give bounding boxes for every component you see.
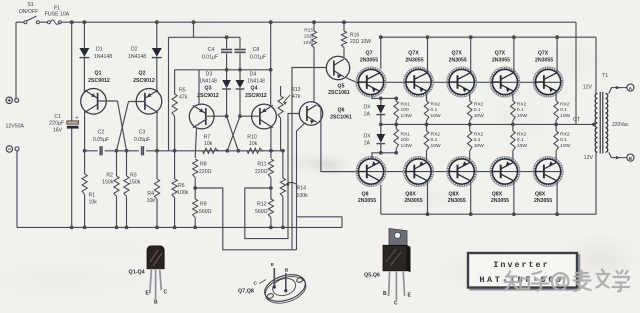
svg-text:12V50A: 12V50A <box>6 124 25 130</box>
svg-text:1/4W: 1/4W <box>401 143 413 149</box>
wire bottom bus to transformer <box>595 153 597 215</box>
wire top collector bus <box>381 36 596 38</box>
diode D1 <box>83 20 87 24</box>
svg-text:220Ω: 220Ω <box>199 169 212 175</box>
svg-text:150k: 150k <box>102 180 114 186</box>
wire Q7X #1 emitter to RX2 <box>426 94 428 101</box>
diode D4 <box>239 70 241 80</box>
resistor RX1 top <box>381 97 396 99</box>
transistor Q5 <box>326 56 349 79</box>
svg-text:B: B <box>383 291 387 297</box>
svg-text:D4: D4 <box>250 72 257 78</box>
svg-text:1N4148: 1N4148 <box>94 54 112 60</box>
svg-text:10W: 10W <box>560 143 570 149</box>
svg-text:Q2: Q2 <box>139 70 146 76</box>
svg-text:R3: R3 <box>130 172 137 178</box>
wire Q8X #2 emitter to RX2 <box>469 153 471 160</box>
wire R11/R12 tap to Q6 base loop <box>245 114 300 239</box>
svg-text:R16: R16 <box>350 32 359 38</box>
wire Q4 base stub <box>240 115 259 117</box>
svg-text:10W: 10W <box>474 143 484 149</box>
svg-text:Q8X: Q8X <box>405 191 416 197</box>
svg-text:C3: C3 <box>139 130 146 136</box>
wire top bus to transformer <box>595 37 597 93</box>
diode DX top <box>379 97 383 101</box>
svg-text:12V: 12V <box>584 155 594 161</box>
svg-text:Q8: Q8 <box>362 191 369 197</box>
svg-text:Q7X: Q7X <box>452 51 463 57</box>
svg-text:10W: 10W <box>517 143 527 149</box>
svg-text:22Ω: 22Ω <box>304 34 313 40</box>
svg-text:RX1: RX1 <box>401 131 411 137</box>
svg-text:1/4W: 1/4W <box>401 113 413 119</box>
svg-text:DX: DX <box>364 134 372 140</box>
resistor R10 <box>247 148 264 153</box>
wire Q8X #4 collector <box>555 212 559 216</box>
svg-text:1N4148: 1N4148 <box>128 54 146 60</box>
wire Q7X #3 emitter to RX2 <box>512 94 514 101</box>
svg-text:R7: R7 <box>204 135 211 141</box>
watermark zhihu <box>505 270 630 292</box>
wire cross-coupling D3 to R10 node <box>226 88 228 116</box>
capacitor C4 <box>226 37 228 48</box>
diode DX bottom <box>380 124 382 134</box>
wire Q8X #3 emitter to RX2 <box>512 153 514 160</box>
svg-text:R15: R15 <box>304 27 313 33</box>
resistor R5 <box>174 70 176 94</box>
wire Q8 emitter <box>372 153 381 159</box>
transformer secondary winding <box>606 94 608 153</box>
wire bottom collector bus <box>381 213 596 215</box>
svg-text:C1: C1 <box>54 114 61 120</box>
svg-text:Q8X: Q8X <box>535 191 546 197</box>
svg-text:100k: 100k <box>297 193 309 199</box>
svg-text:R13: R13 <box>291 87 301 93</box>
diode D3 <box>226 70 228 80</box>
wire Q4 emitter to R11 <box>270 128 272 159</box>
svg-text:RX2: RX2 <box>474 131 484 137</box>
wire Q7X #2 emitter to RX2 <box>469 94 471 101</box>
wire Q8X #4 emitter to RX2 <box>555 153 557 160</box>
package drawing TO-3 Q7 Q8 <box>238 262 309 308</box>
svg-text:2N3055: 2N3055 <box>404 198 422 204</box>
svg-text:2N3055: 2N3055 <box>448 198 466 204</box>
package drawing TO-220 Q5 Q6 <box>364 229 412 307</box>
svg-text:2SC9012: 2SC9012 <box>133 78 155 84</box>
svg-text:0.1: 0.1 <box>517 107 524 113</box>
wire mid line right segment <box>200 150 283 152</box>
wire centre CT bus <box>381 123 576 125</box>
resistor R6 <box>173 149 177 153</box>
transistor Q6 <box>299 102 322 125</box>
wire Q8X #2 collector <box>469 212 473 216</box>
svg-text:0.01µF: 0.01µF <box>250 54 266 60</box>
svg-text:RX2: RX2 <box>517 101 527 107</box>
svg-text:10W: 10W <box>431 143 441 149</box>
wire cross-coupling D4 to R7 node <box>239 88 241 116</box>
svg-text:2N3055: 2N3055 <box>449 57 467 63</box>
svg-text:10W: 10W <box>303 40 313 46</box>
wire Q1 emitter to R1 <box>84 111 86 151</box>
wire Q7X #2 collector <box>469 35 473 39</box>
wire Q8 collector <box>380 185 382 214</box>
svg-text:2N3055: 2N3055 <box>491 198 509 204</box>
svg-text:T1: T1 <box>602 73 608 79</box>
svg-text:Q1-Q4: Q1-Q4 <box>129 269 145 275</box>
svg-text:Q1: Q1 <box>95 70 102 76</box>
capacitor C8 <box>239 37 241 48</box>
svg-text:R1: R1 <box>89 192 96 198</box>
wire battery feeds <box>15 22 17 98</box>
svg-text:RX2: RX2 <box>431 101 441 107</box>
wire CT connection <box>576 123 594 125</box>
wire Q8X #3 collector <box>512 212 516 216</box>
svg-text:0.05µF: 0.05µF <box>93 137 109 143</box>
svg-text:2SC9012: 2SC9012 <box>245 93 267 99</box>
resistor RX2 top #1 <box>424 101 429 123</box>
svg-text:Q7X: Q7X <box>408 51 419 57</box>
resistor R11 <box>268 159 273 179</box>
svg-text:R10: R10 <box>247 135 257 141</box>
svg-text:Q6: Q6 <box>338 107 345 113</box>
svg-text:ON/OFF: ON/OFF <box>19 9 39 15</box>
wire Q7X #4 collector <box>555 35 559 39</box>
svg-text:2N3055: 2N3055 <box>492 57 510 63</box>
svg-text:Q7X: Q7X <box>495 51 506 57</box>
battery negative terminal <box>6 146 12 152</box>
svg-text:10k: 10k <box>249 141 258 147</box>
svg-text:10k: 10k <box>147 198 156 204</box>
svg-text:10k: 10k <box>89 200 98 206</box>
svg-text:B: B <box>285 268 289 274</box>
wire Q5 emitter to output base bus <box>346 78 357 83</box>
wire top supply rail <box>16 21 24 23</box>
svg-text:D1: D1 <box>96 47 103 53</box>
svg-text:+: + <box>75 116 78 122</box>
wire bottom base bus <box>321 171 562 173</box>
svg-text:RX2: RX2 <box>517 131 527 137</box>
wire C4 feed line <box>175 69 271 71</box>
svg-text:220Ω: 220Ω <box>255 169 268 175</box>
switch S1 <box>24 21 27 24</box>
resistor R9 <box>193 186 197 190</box>
svg-text:0.1: 0.1 <box>431 137 438 143</box>
svg-text:Q8X: Q8X <box>492 191 503 197</box>
svg-text:D2: D2 <box>131 47 138 53</box>
svg-text:2SC1061: 2SC1061 <box>330 115 352 121</box>
svg-text:2SC1061: 2SC1061 <box>328 90 350 96</box>
svg-text:R6: R6 <box>178 183 185 189</box>
svg-text:10k: 10k <box>204 141 213 147</box>
resistor R12 <box>269 186 273 190</box>
capacitor C1 <box>71 22 73 120</box>
svg-text:560Ω: 560Ω <box>255 209 268 215</box>
svg-text:C2: C2 <box>98 130 105 136</box>
svg-text:100k: 100k <box>177 190 189 196</box>
svg-text:10W: 10W <box>560 113 570 119</box>
svg-text:Q7X: Q7X <box>538 51 549 57</box>
svg-text:B: B <box>154 299 158 305</box>
wire coupling link to oscillator <box>168 37 170 151</box>
output terminal B <box>609 153 621 158</box>
wire Q7X #3 collector <box>512 35 516 39</box>
diode D2 <box>155 20 159 24</box>
svg-text:0.1: 0.1 <box>474 107 481 113</box>
wire Q4 collector from rail <box>269 20 273 24</box>
svg-text:RX2: RX2 <box>474 101 484 107</box>
svg-text:C: C <box>164 289 168 295</box>
svg-text:0.1: 0.1 <box>560 137 567 143</box>
wire Q8X #1 collector <box>426 212 430 216</box>
svg-text:C: C <box>254 281 258 287</box>
svg-text:47k: 47k <box>292 94 301 100</box>
transformer core <box>599 92 601 154</box>
svg-text:RX1: RX1 <box>401 101 411 107</box>
svg-text:R2: R2 <box>106 172 113 178</box>
capacitor C2 <box>99 146 101 155</box>
svg-text:22Ω 10W: 22Ω 10W <box>350 39 371 45</box>
svg-text:Q8X: Q8X <box>449 191 460 197</box>
svg-text:2SC9012: 2SC9012 <box>88 78 110 84</box>
svg-text:C8: C8 <box>253 47 260 53</box>
resistor R13 preset <box>280 86 282 96</box>
svg-text:R14: R14 <box>297 186 307 192</box>
resistor R8 <box>193 159 198 179</box>
resistor R1 <box>83 149 87 153</box>
wire C4/C8 top link <box>193 22 195 37</box>
resistor RX1 bottom <box>381 152 396 154</box>
svg-text:B: B <box>629 156 633 162</box>
svg-text:RX2: RX2 <box>560 131 570 137</box>
svg-text:1N4148: 1N4148 <box>247 78 265 84</box>
wire Q8X #1 emitter to RX2 <box>426 153 428 160</box>
svg-text:FUSE 10A: FUSE 10A <box>45 12 70 18</box>
resistor RX2 bottom #1 <box>424 131 429 153</box>
svg-text:DX: DX <box>364 105 372 111</box>
svg-text:16V: 16V <box>53 127 63 133</box>
svg-text:1N4148: 1N4148 <box>199 78 217 84</box>
svg-text:2A: 2A <box>364 111 371 117</box>
svg-text:S1: S1 <box>27 2 33 8</box>
wire Q2 emitter to R4 <box>156 111 158 151</box>
resistor R14 preset <box>281 149 285 153</box>
wire Q3 collector drop from C4 line <box>198 70 200 105</box>
svg-text:Q5,Q6: Q5,Q6 <box>364 272 380 278</box>
wire bottom ground rail <box>17 226 342 228</box>
svg-text:2SC9012: 2SC9012 <box>197 93 219 99</box>
wire Q2 base cross-couple to R2 <box>129 101 145 103</box>
svg-text:0.1: 0.1 <box>431 107 438 113</box>
svg-text:Q3: Q3 <box>205 86 212 92</box>
wire battery rail to CT <box>575 22 577 124</box>
svg-text:10W: 10W <box>474 113 484 119</box>
resistor RX2 bottom #2 <box>467 131 472 153</box>
svg-text:2N3055: 2N3055 <box>534 198 552 204</box>
resistor R16 <box>342 20 346 24</box>
svg-text:10W: 10W <box>431 113 441 119</box>
resistor R7 <box>203 148 220 153</box>
svg-text:2N3055: 2N3055 <box>405 57 423 63</box>
resistor R2 <box>115 149 119 153</box>
resistor R15 <box>312 20 316 24</box>
svg-text:220Vac: 220Vac <box>612 122 629 128</box>
wire Q6 collector to Q8 base bus <box>318 105 357 172</box>
wire Q3 emitter to R8 <box>195 128 196 159</box>
battery positive terminal <box>6 97 12 103</box>
fuse F1 <box>47 21 50 24</box>
svg-text:2N3055: 2N3055 <box>535 57 553 63</box>
svg-text:Q7: Q7 <box>366 51 373 57</box>
svg-text:RX2: RX2 <box>431 131 441 137</box>
svg-text:Q5: Q5 <box>338 83 345 89</box>
svg-text:0.1: 0.1 <box>474 137 481 143</box>
capacitor C3 <box>141 146 143 155</box>
svg-text:Q4: Q4 <box>251 86 258 92</box>
svg-text:10W: 10W <box>517 113 527 119</box>
wire Q7 collector <box>380 37 382 69</box>
svg-text:R8: R8 <box>200 162 207 168</box>
wire Q3 base stub <box>207 115 227 117</box>
wire Q7 emitter <box>372 95 381 99</box>
resistor RX2 bottom #4 <box>554 131 559 153</box>
svg-text:Q7,Q8: Q7,Q8 <box>238 288 254 294</box>
wire top base bus <box>357 81 562 83</box>
svg-text:C: C <box>394 300 398 306</box>
svg-text:47k: 47k <box>179 95 188 101</box>
output terminal A <box>609 88 621 94</box>
svg-text:R9: R9 <box>200 202 207 208</box>
package drawing TO-92 Q1-Q4 <box>129 246 168 306</box>
svg-text:R5: R5 <box>179 87 186 93</box>
svg-text:CT: CT <box>573 117 581 123</box>
resistor R3 <box>125 149 129 153</box>
wire Q1 base cross-couple to R3 <box>98 100 118 102</box>
svg-text:R11: R11 <box>257 162 266 168</box>
svg-text:12V: 12V <box>583 85 593 91</box>
svg-text:0.1: 0.1 <box>560 107 567 113</box>
svg-text:D3: D3 <box>206 72 213 78</box>
title box Inverter HAT-INF-500 <box>468 253 579 290</box>
svg-text:2A: 2A <box>364 140 371 146</box>
wire Q7X #1 collector <box>426 35 430 39</box>
svg-text:150k: 150k <box>129 180 141 186</box>
svg-text:220µF: 220µF <box>49 121 64 127</box>
resistor RX2 top #2 <box>467 101 472 123</box>
resistor RX2 top #4 <box>554 101 559 123</box>
wire Q7X #4 emitter to RX2 <box>555 94 557 101</box>
svg-text:R4: R4 <box>147 191 154 197</box>
svg-text:100: 100 <box>401 137 409 143</box>
wire oscillator emitter line <box>85 150 98 152</box>
wire Q6 emitter down <box>297 123 306 132</box>
svg-text:100: 100 <box>401 107 409 113</box>
wire ground rail return to driver <box>297 217 343 228</box>
svg-text:0.05µF: 0.05µF <box>134 137 150 143</box>
svg-text:F1: F1 <box>54 5 60 11</box>
svg-text:Inverter: Inverter <box>493 260 549 270</box>
svg-text:0.1: 0.1 <box>517 137 524 143</box>
resistor RX2 top #3 <box>511 101 516 123</box>
svg-text:2N3055: 2N3055 <box>360 57 378 63</box>
wire R8/R9 tap to Q5 base loop <box>195 188 296 250</box>
svg-text:C4: C4 <box>208 47 215 53</box>
svg-text:560Ω: 560Ω <box>199 209 212 215</box>
svg-text:RX2: RX2 <box>560 101 570 107</box>
svg-text:A: A <box>629 86 633 92</box>
resistor RX2 bottom #3 <box>511 131 516 153</box>
svg-text:R12: R12 <box>257 202 267 208</box>
emitter RX2 for Q7 <box>426 94 428 101</box>
svg-text:2N3055: 2N3055 <box>358 198 376 204</box>
svg-text:0.01µF: 0.01µF <box>202 54 218 60</box>
resistor R4 <box>155 149 159 153</box>
